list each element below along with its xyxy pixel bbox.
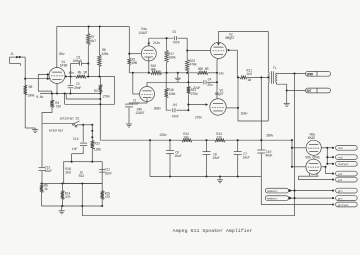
- wire plate line: [149, 37, 173, 39]
- resistor R9 1k: [40, 185, 43, 193]
- svg-text:230v: 230v: [159, 134, 166, 138]
- lead label red: [336, 145, 358, 150]
- heater box 1: [265, 188, 288, 193]
- svg-text:1k: 1k: [44, 187, 48, 192]
- wire v6a out: [321, 147, 333, 149]
- svg-text:20nF: 20nF: [74, 87, 81, 91]
- svg-text:.04: .04: [171, 104, 177, 108]
- svg-text:red: red: [338, 146, 343, 150]
- wire bus drop: [149, 140, 151, 176]
- wire ht bus: [100, 139, 182, 141]
- svg-text:heaters: heaters: [267, 189, 277, 193]
- ground: [32, 129, 38, 131]
- svg-text:V6b 6X4S: V6b 6X4S: [305, 156, 319, 161]
- svg-text:730: 730: [55, 106, 61, 110]
- wire rect feed: [291, 140, 293, 167]
- svg-text:14v: 14v: [218, 72, 224, 76]
- resistor R8: [24, 85, 27, 95]
- input jack J1: [10, 56, 26, 58]
- lead label grn: [336, 196, 358, 201]
- svg-text:150v: 150v: [240, 112, 247, 116]
- svg-text:R22: R22: [94, 143, 100, 147]
- wire v3 grid: [188, 104, 205, 106]
- svg-text:120k: 120k: [94, 147, 101, 152]
- wire v4a plate: [148, 38, 150, 46]
- ground mid rail: [175, 77, 181, 79]
- lead label yel: [336, 171, 358, 176]
- svg-text:220k: 220k: [101, 52, 108, 57]
- svg-text:grn/yel: grn/yel: [338, 203, 349, 207]
- svg-text:C14: C14: [73, 138, 79, 142]
- capacitor C5 47nF: [173, 36, 175, 40]
- svg-text:470k: 470k: [189, 62, 196, 67]
- wire bypass: [147, 81, 203, 83]
- svg-text:R8: R8: [29, 86, 33, 90]
- wire v4a cathode: [148, 57, 150, 73]
- svg-text:yel: yel: [338, 172, 343, 176]
- ground under C1: [126, 123, 132, 125]
- svg-text:grn: grn: [338, 189, 343, 193]
- tube V6a 6X4: [306, 140, 321, 155]
- svg-text:R3: R3: [94, 90, 98, 94]
- svg-text:12AU7: 12AU7: [135, 112, 144, 116]
- wire v4b cathode: [129, 99, 147, 104]
- svg-text:10uF: 10uF: [242, 157, 249, 161]
- svg-text:grn: grn: [338, 196, 343, 200]
- svg-text:EF86: EF86: [60, 65, 67, 69]
- wire v6b out: [321, 166, 325, 168]
- wire input column: [24, 57, 26, 128]
- svg-text:16uF: 16uF: [174, 155, 181, 159]
- wire lower node: [42, 183, 64, 185]
- svg-text:27k: 27k: [216, 136, 222, 141]
- svg-text:1nF: 1nF: [72, 148, 78, 152]
- wire bottom bus: [42, 205, 103, 207]
- svg-text:3k9: 3k9: [65, 170, 71, 175]
- tube V1 EF86: [49, 68, 65, 84]
- svg-text:J1: J1: [10, 53, 14, 57]
- wire heater ct: [260, 177, 262, 205]
- svg-text:100pF: 100pF: [73, 60, 82, 64]
- wire c8: [206, 140, 208, 151]
- svg-text:6BQ5T: 6BQ5T: [225, 37, 234, 41]
- junction dots: [19, 56, 21, 58]
- wire v2 screen: [229, 49, 238, 51]
- svg-text:270k: 270k: [191, 92, 198, 97]
- svg-text:external: external: [49, 128, 63, 133]
- wire rail gnd: [177, 73, 179, 78]
- resistor R10 90k: [151, 71, 162, 74]
- wire screen: [65, 76, 76, 78]
- wire cathode: [56, 84, 58, 94]
- wire c4 out: [176, 109, 188, 111]
- jack SPKR: [306, 71, 331, 76]
- wire v4b grid: [133, 73, 140, 94]
- wire C2 col: [70, 77, 72, 85]
- capacitor C11 33nF: [99, 169, 105, 171]
- capacitor 22uF 25v: [203, 80, 205, 84]
- tube V4a 12AU7: [141, 46, 156, 61]
- svg-text:270v: 270v: [195, 117, 202, 121]
- wire v4b plate: [146, 82, 148, 86]
- svg-text:6X4S: 6X4S: [308, 137, 315, 141]
- tube V3 6BQ5: [210, 99, 226, 115]
- ground bottom: [59, 210, 65, 212]
- svg-text:R13: R13: [79, 175, 85, 179]
- svg-text:100k: 100k: [27, 94, 34, 99]
- capacitor C4 47nF coupling: [172, 108, 174, 112]
- svg-text:EXT: EXT: [307, 89, 312, 93]
- wire c9: [169, 140, 171, 150]
- wire link: [64, 94, 66, 105]
- resistor R4: [51, 94, 53, 101]
- svg-text:yel: yel: [338, 178, 343, 182]
- svg-text:C4: C4: [208, 79, 212, 83]
- svg-text:360 0R: 360 0R: [198, 68, 209, 72]
- wire cathode tap: [65, 94, 67, 100]
- svg-text:12AU7: 12AU7: [138, 32, 147, 36]
- capacitor C1 47nF: [125, 103, 133, 105]
- svg-text:10k: 10k: [183, 136, 189, 141]
- svg-text:heaters: heaters: [267, 197, 277, 201]
- jack EXT: [306, 88, 331, 93]
- resistor R5 1M: [76, 75, 86, 78]
- resistor R15 470: [101, 184, 103, 191]
- svg-text:R5 1M: R5 1M: [78, 72, 87, 76]
- resistor R13: [215, 139, 225, 142]
- lead label grn: [336, 188, 358, 193]
- resistor R12: [182, 139, 192, 142]
- resistor R3 270k: [99, 77, 101, 85]
- lead label yel: [336, 177, 358, 182]
- resistor R22 120k: [91, 125, 93, 141]
- svg-text:270k: 270k: [103, 95, 110, 100]
- tube V2 6BQ5: [211, 43, 227, 59]
- wire v2 plate: [219, 32, 269, 43]
- tube V4b 12AU7: [140, 87, 155, 102]
- svg-text:Ampeg 611 Speaker Amplifier: Ampeg 611 Speaker Amplifier: [173, 228, 253, 234]
- heater box 2: [265, 196, 288, 201]
- svg-text:1k5: 1k5: [247, 72, 253, 77]
- svg-text:120k: 120k: [168, 92, 175, 97]
- wire C14 col: [82, 125, 84, 142]
- lead label red: [336, 155, 358, 160]
- wire switch feed: [42, 122, 72, 124]
- svg-text:208v: 208v: [154, 108, 161, 112]
- wire filter return: [150, 176, 261, 178]
- lead label grn/yel: [336, 202, 358, 207]
- svg-text:213v: 213v: [153, 42, 160, 46]
- lead label red/yel: [336, 161, 358, 166]
- svg-text:40uF: 40uF: [265, 155, 272, 159]
- resistor R8b 1M: [128, 58, 131, 65]
- svg-text:red: red: [338, 155, 343, 159]
- wire C3 leads: [71, 63, 80, 65]
- wire mid rail: [129, 72, 151, 74]
- transformer T1: [267, 72, 270, 82]
- tube V6b 6X4: [306, 159, 321, 174]
- svg-text:6BQ5T: 6BQ5T: [215, 93, 224, 97]
- resistor R17 100k: [166, 38, 168, 50]
- wire grid loop: [38, 74, 51, 91]
- wire c10: [260, 140, 262, 150]
- svg-text:470: 470: [105, 196, 111, 200]
- svg-text:47nF: 47nF: [132, 103, 139, 107]
- wire c7: [237, 140, 239, 151]
- ground PSU: [217, 179, 223, 181]
- svg-text:16uF: 16uF: [45, 170, 52, 174]
- svg-text:470: 470: [65, 196, 71, 200]
- wire v4a grid col: [128, 27, 130, 59]
- network box: [64, 162, 102, 184]
- svg-text:100k: 100k: [168, 56, 175, 61]
- svg-text:47nF: 47nF: [172, 115, 179, 119]
- svg-text:40v: 40v: [69, 72, 75, 76]
- svg-text:internal S1: internal S1: [59, 117, 79, 122]
- resistor R7 4k7: [87, 27, 89, 34]
- wire v2 cathode: [217, 59, 219, 99]
- wire r11: [238, 76, 240, 78]
- wire v6b heater: [309, 174, 311, 177]
- wire plate: [56, 27, 58, 68]
- resistor R23 470k: [186, 51, 188, 60]
- svg-text:C5: C5: [172, 31, 176, 35]
- svg-text:25v: 25v: [207, 84, 213, 88]
- svg-text:47nF: 47nF: [173, 42, 180, 46]
- resistor R14 470: [61, 184, 63, 191]
- svg-text:0.6v: 0.6v: [36, 96, 43, 100]
- wire v3 plate: [226, 107, 238, 109]
- wire sec top: [277, 73, 306, 75]
- svg-text:360v: 360v: [266, 134, 273, 138]
- resistor R6 220k: [98, 27, 100, 56]
- svg-text:33nF: 33nF: [105, 172, 112, 176]
- svg-text:80v: 80v: [59, 53, 65, 57]
- svg-text:red/yel: red/yel: [338, 162, 349, 166]
- wire sec bot: [277, 83, 287, 85]
- wire switch out: [77, 124, 92, 126]
- svg-text:90k: 90k: [151, 67, 157, 72]
- resistor R18 120k: [165, 73, 167, 88]
- capacitor C3 100pF: [78, 61, 80, 65]
- resistor R21 270k: [187, 73, 189, 87]
- wire heater pair: [291, 190, 333, 192]
- svg-text:1M8: 1M8: [132, 62, 138, 66]
- wire top rail: [57, 26, 130, 28]
- svg-text:10uF: 10uF: [212, 157, 219, 161]
- wire to ground: [25, 127, 35, 129]
- svg-text:4k7: 4k7: [91, 39, 97, 44]
- ground speaker: [284, 102, 290, 104]
- wire C12 col: [41, 123, 43, 167]
- resistor 360 ohm: [198, 71, 209, 74]
- wire feedback: [82, 74, 294, 216]
- svg-text:T1: T1: [273, 67, 277, 71]
- svg-text:SPKR: SPKR: [307, 73, 314, 77]
